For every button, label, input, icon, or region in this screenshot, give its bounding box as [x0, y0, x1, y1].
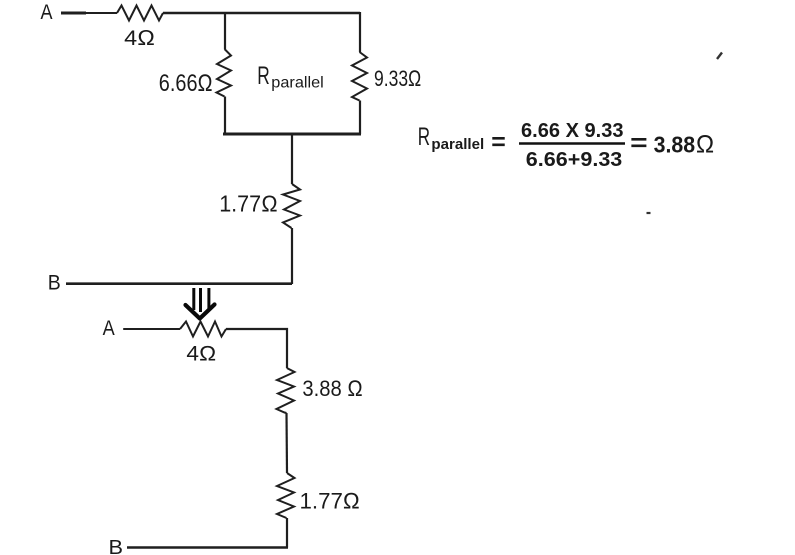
svg-text:6.66Ω: 6.66Ω	[159, 70, 213, 97]
svg-text:4Ω: 4Ω	[186, 343, 216, 366]
stray tick mark top right	[717, 53, 722, 60]
stray dash mark	[647, 212, 651, 214]
wire down to B rail	[291, 228, 293, 284]
arrow shaft 3	[207, 288, 210, 310]
svg-text:4Ω: 4Ω	[124, 26, 155, 50]
svg-text:parallel: parallel	[431, 136, 484, 153]
svg-text:3.88 Ω: 3.88 Ω	[302, 376, 363, 401]
wire down to B rail (bottom)	[286, 518, 288, 548]
svg-text:R: R	[257, 62, 270, 90]
svg-text:=: =	[491, 129, 506, 156]
wire right branch upper stub	[359, 12, 361, 52]
resistor R4 1.77ohm (top circuit)	[283, 184, 300, 228]
svg-text:B: B	[48, 272, 61, 295]
arrow shaft 1	[192, 288, 195, 310]
resistor R3 9.33ohm (right branch)	[352, 52, 367, 101]
svg-text:1.77Ω: 1.77Ω	[300, 489, 361, 514]
equation fraction bar	[519, 142, 625, 145]
resistor R6 3.88ohm	[277, 368, 295, 413]
svg-text:A: A	[103, 317, 115, 340]
svg-text:B: B	[109, 536, 124, 555]
svg-text:Ω: Ω	[696, 131, 715, 159]
resistor R7 1.77ohm (bottom circuit)	[277, 473, 295, 518]
wire bottom rail of parallel box	[223, 133, 361, 136]
svg-text:A: A	[41, 1, 53, 24]
wire center stub down	[291, 134, 293, 184]
svg-text:1.77Ω: 1.77Ω	[219, 191, 278, 217]
wire right branch lower stub	[359, 101, 361, 135]
wire B rail (top circuit)	[66, 282, 292, 285]
wire top rail	[163, 12, 360, 14]
wire left branch lower stub	[224, 97, 226, 135]
svg-text:3.88: 3.88	[654, 132, 696, 158]
wire A to R5	[123, 328, 180, 330]
wire B rail (bottom circuit)	[127, 546, 288, 549]
arrow shaft 2	[199, 288, 202, 312]
arrow head	[186, 305, 215, 319]
wire A to R1	[61, 12, 86, 15]
svg-text:parallel: parallel	[271, 75, 324, 92]
svg-text:9.33Ω: 9.33Ω	[374, 66, 422, 91]
wire continue	[85, 12, 117, 14]
wire left branch upper stub	[224, 12, 226, 49]
resistor R2 6.66ohm (left branch)	[217, 49, 232, 97]
svg-text:=: =	[630, 130, 648, 157]
wire R5 to corner and down	[226, 329, 287, 368]
resistor R5 4ohm (bottom, horizontal)	[180, 322, 226, 337]
svg-text:6.66+9.33: 6.66+9.33	[526, 149, 623, 171]
resistor R1 4ohm (top, horizontal)	[117, 6, 163, 21]
wire R6 to R7	[285, 413, 288, 473]
svg-text:R: R	[418, 123, 430, 151]
svg-text:6.66 X 9.33: 6.66 X 9.33	[521, 120, 624, 142]
